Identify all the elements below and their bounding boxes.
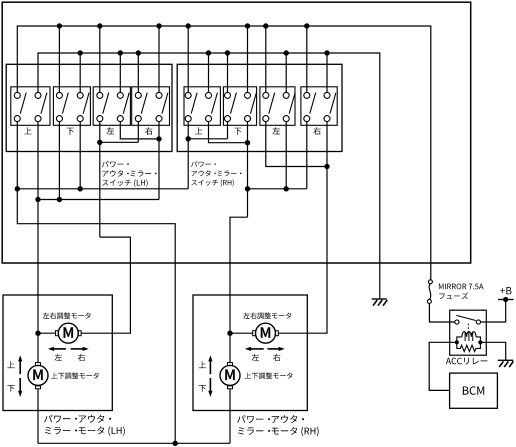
label ACC relay (446, 358, 488, 365)
label 右 under LH-RIGHT (145, 127, 152, 135)
arrow right RH (268, 348, 280, 350)
label power outer mirror switch RH line2 (192, 170, 242, 176)
switch contacts and blade SW LH-UP-1 (14, 92, 20, 98)
switch section box LH-UP (11, 87, 50, 126)
label 左 under LH-LEFT (107, 127, 115, 134)
wire RH net: col9 to DOWN-L (188, 138, 227, 140)
switch contacts and blade SW RH-LEFT-2 (283, 92, 289, 98)
label up-down adjust motor RH (245, 372, 293, 379)
label 左 RH arrows (252, 354, 259, 361)
label 左 under RH-LEFT (272, 127, 280, 134)
wire net-P: col1 down then right then down to bottom rail (17, 189, 175, 443)
motor M2 up-down adjust LH (28, 365, 48, 385)
wire net-P: row1 horizontal (17, 188, 188, 190)
power outer mirror switch RH box (177, 64, 342, 151)
switch section box RH-UP (184, 87, 220, 126)
label left-right adjust motor RH (243, 312, 291, 319)
wire fuse to relay switch (429, 303, 454, 322)
junction relay coil right (478, 340, 482, 344)
wire net-A: horizontal to RIGHT-L riser (100, 141, 139, 143)
junction row2 at col3 (57, 197, 62, 202)
junction rowC at col12 (245, 186, 250, 191)
label power outer mirror switch RH line3 (191, 179, 234, 186)
junction on bus1 at x=188.2 (186, 23, 191, 28)
label 右 RH arrows (273, 354, 280, 361)
wire bus1 (+) from LH-UP-L switch to fuse feed (17, 26, 431, 280)
junction relay coil left (455, 340, 459, 344)
wire LH col4 (DOWN-R) down to row1 (79, 122, 81, 189)
label BCM (463, 386, 484, 395)
switch contacts and blade SW RH-DOWN-2 (245, 92, 251, 98)
switch contacts and blade SW LH-DOWN-2 (77, 92, 83, 98)
wire drop from bus1 to switch top at x=159.0 (158, 26, 160, 92)
label 左 LH arrows (55, 354, 62, 361)
junction on bus1 at x=247.5 (245, 23, 250, 28)
switch section box LH-DOWN (53, 87, 90, 126)
motor M1 left-right adjust LH (58, 323, 78, 343)
label M motor1 RH (261, 327, 271, 338)
label 下 under LH-DOWN (67, 128, 74, 135)
label 下 RH (199, 385, 206, 392)
wire drop from bus1 to switch top at x=247.5 (247, 26, 249, 92)
label 上 RH (199, 361, 206, 368)
junction rowD at col16 (324, 164, 329, 169)
wire RH col9 (UP-L) down to row1 corner (187, 122, 189, 189)
junction net-A at col5 (97, 140, 102, 145)
label power outer mirror motor LH caption line2 (45, 426, 125, 435)
junction RH col12 upper (245, 140, 250, 145)
label 上 LH (7, 361, 14, 368)
wire LH col3 (DOWN-L) down to row2 (58, 122, 60, 200)
wire drop from bus2 to switch top at x=80.2 (79, 53, 81, 92)
terminal +B dot and bar (503, 297, 508, 302)
label power outer mirror switch RH line1 (191, 161, 216, 167)
junction col8 lower (156, 136, 161, 141)
wire RH col10 (UP-R) down and right to col12 (209, 122, 248, 143)
switch section box RH-LEFT (260, 87, 295, 126)
wire motor2 top lead RH (229, 333, 231, 362)
label M motor1 LH (64, 327, 74, 338)
switch section box RH-DOWN (223, 87, 256, 126)
junction on bus1 at x=59.4 (57, 23, 62, 28)
switch contacts and blade SW RH-UP-1 (185, 92, 191, 98)
power outer mirror motor RH box (193, 295, 307, 411)
switch section box LH-LEFT (93, 87, 130, 126)
switch contacts and blade SW RH-RIGHT-1 (304, 92, 310, 98)
wire RH col12 (DOWN-R) down through rowC (247, 122, 249, 218)
wire LH col6 (LEFT-R) down and right to col8 (120, 121, 159, 139)
wire to motor1 left terminal LH (38, 332, 56, 334)
junction RH col9 (186, 136, 191, 141)
switch contacts and blade SW LH-RIGHT-2 (156, 92, 162, 98)
wire drop from bus2 to switch top at x=120.3 (119, 53, 121, 92)
relay switch contacts (455, 320, 459, 324)
label left-right adjust motor LH (43, 312, 91, 319)
label 下 under RH-DOWN (234, 128, 241, 135)
motor M1 left-right adjust RH (256, 323, 276, 343)
label 下 LH (7, 385, 14, 392)
switch contacts and blade SW RH-DOWN-1 (225, 92, 231, 98)
wire rowC horizontal (248, 188, 307, 190)
wire motor2 top lead LH (37, 333, 39, 362)
ground symbol for relay coil (498, 359, 514, 361)
label power outer mirror switch LH line2 (102, 170, 156, 177)
wire relay coil to ground (480, 342, 505, 360)
wire bottom rail joining both up-down motors (38, 442, 230, 444)
fuse MIRROR 7.5A symbol (428, 280, 432, 284)
junction row1 at col4 (78, 186, 83, 191)
wire drop from bus2 to switch top at x=227.5 (227, 53, 229, 92)
relay coil (457, 332, 481, 343)
wire RH col15 (RIGHT-L) down to rowC end (306, 122, 308, 189)
relay resistor (457, 342, 481, 351)
wire LH col2 (UP-R) down through row2 into motor box (37, 122, 39, 334)
power outer mirror motor LH box (3, 295, 112, 411)
wire drop from bus2 to switch top at x=327.0 (326, 53, 328, 92)
ground symbol for bus2 (372, 298, 387, 300)
wire drop from bus2 to switch top at x=138.3 (137, 53, 139, 92)
junction at motor1 feed RH (227, 331, 232, 336)
junction row1 at col1 (15, 186, 20, 191)
relay switch blade (456, 315, 476, 320)
switch contacts and blade SW LH-UP-2 (35, 92, 41, 98)
label 右 LH arrows (78, 354, 85, 361)
junction on bus2 at x=286.2 (284, 50, 289, 55)
label power outer mirror motor LH caption line1 (44, 415, 111, 423)
junction bottom rail with net-P (173, 441, 178, 446)
switch contacts and blade SW RH-UP-2 (206, 92, 212, 98)
switch section box LH-RIGHT (132, 87, 170, 126)
wire motor2 bottom lead LH to bottom rail (37, 389, 39, 444)
wire motor2 bottom lead RH to bottom rail (229, 389, 231, 444)
label +B (500, 287, 511, 294)
junction on bus1 at x=265.8 (263, 23, 268, 28)
arrow left RH (250, 348, 264, 350)
wire LH col8 (RIGHT-R) down to row2 end (158, 122, 160, 200)
wire LH col5 (LEFT-L) down to net-A corner (99, 122, 101, 238)
junction on bus2 at x=208.5 (206, 50, 211, 55)
wire bus2 from LH-UP-R switch to ground feed (38, 53, 380, 299)
junction on bus2 at x=80.2 (78, 50, 83, 55)
wire drop from bus2 to switch top at x=286.2 (285, 53, 287, 92)
wire +B to relay switch (481, 300, 506, 323)
junction rowC at col14 (284, 186, 289, 191)
junction on bus1 at x=306.8 (304, 23, 309, 28)
switch contacts and blade SW LH-LEFT-2 (117, 92, 123, 98)
wire RH col11 (DOWN-L) stub (227, 122, 229, 139)
label 右 under RH-RIGHT (313, 127, 320, 135)
wire drop from bus1 to switch top at x=59.4 (58, 26, 60, 92)
arrow up-down LH (19, 360, 21, 374)
switch contacts and blade SW LH-DOWN-1 (56, 92, 62, 98)
wire drop from bus1 to switch top at x=99.8 (99, 26, 101, 92)
label 上 under RH-UP (195, 127, 202, 134)
wire RH col14 (LEFT-R) down to rowC (285, 122, 287, 189)
label power outer mirror motor RH caption line1 (237, 415, 304, 423)
switch contacts and blade SW LH-RIGHT-1 (135, 92, 141, 98)
arrow up-down RH (209, 360, 211, 374)
wire RH col16 (RIGHT-R) down to RH motor1 right terminal (279, 122, 328, 334)
arrow right LH (71, 348, 84, 350)
ACC relay box (450, 310, 487, 355)
wire net-C: jog left and down into RH motor box (230, 217, 248, 333)
label power outer mirror motor RH caption line2 (238, 427, 319, 436)
wire LH col1 (UP-L) down to row1 (16, 122, 18, 189)
wire drop from bus1 to switch top at x=306.8 (306, 26, 308, 92)
motor M2 up-down adjust RH (220, 365, 240, 385)
junction at motor1 feed LH (35, 331, 40, 336)
label MIRROR 7.5A (439, 284, 484, 290)
label power outer mirror switch LH line1 (102, 161, 129, 168)
label M motor2 RH (225, 369, 235, 380)
label fuse katakana (439, 292, 468, 299)
wire drop from bus1 to switch top at x=265.8 (265, 26, 267, 92)
wire drop from bus2 to switch top at x=208.5 (208, 53, 210, 92)
arrow left LH (53, 348, 66, 350)
wire LH col7 (RIGHT-L) stub (137, 122, 139, 143)
switch contacts and blade SW RH-LEFT-1 (263, 92, 269, 98)
junction on bus2 at x=327.0 (324, 50, 329, 55)
label power outer mirror switch LH line3 (102, 179, 147, 187)
wire drop from bus1 to switch top at x=188.2 (187, 26, 189, 92)
power outer mirror switch LH box (6, 64, 172, 151)
wire net-Q: row2 horizontal (38, 199, 159, 201)
junction on bus2 at x=227.5 (225, 50, 230, 55)
switch contacts and blade SW RH-RIGHT-2 (324, 92, 330, 98)
switch contacts and blade SW LH-LEFT-1 (97, 92, 103, 98)
BCM box (450, 373, 498, 408)
junction on bus2 at x=138.3 (136, 50, 141, 55)
wire to motor1 left terminal RH (230, 332, 253, 334)
relay actuator dashed link (467, 324, 469, 332)
wire relay coil to BCM (429, 342, 457, 390)
junction row2 at col2 (35, 197, 40, 202)
label up-down adjust motor LH (51, 372, 99, 379)
label M motor2 LH (33, 369, 43, 380)
switch section box RH-RIGHT (301, 87, 337, 126)
junction on bus1 at x=99.8 (97, 23, 102, 28)
wire RH col13 (LEFT-L) down then right to col16 (266, 122, 327, 167)
junction on bus1 at x=159.0 (156, 23, 161, 28)
label 上 under LH-UP (24, 127, 31, 134)
wire net-A: right then down to LH motor1 right terminal (81, 237, 130, 333)
connector block outer box (2, 2, 471, 263)
junction on bus2 at x=120.3 (118, 50, 123, 55)
